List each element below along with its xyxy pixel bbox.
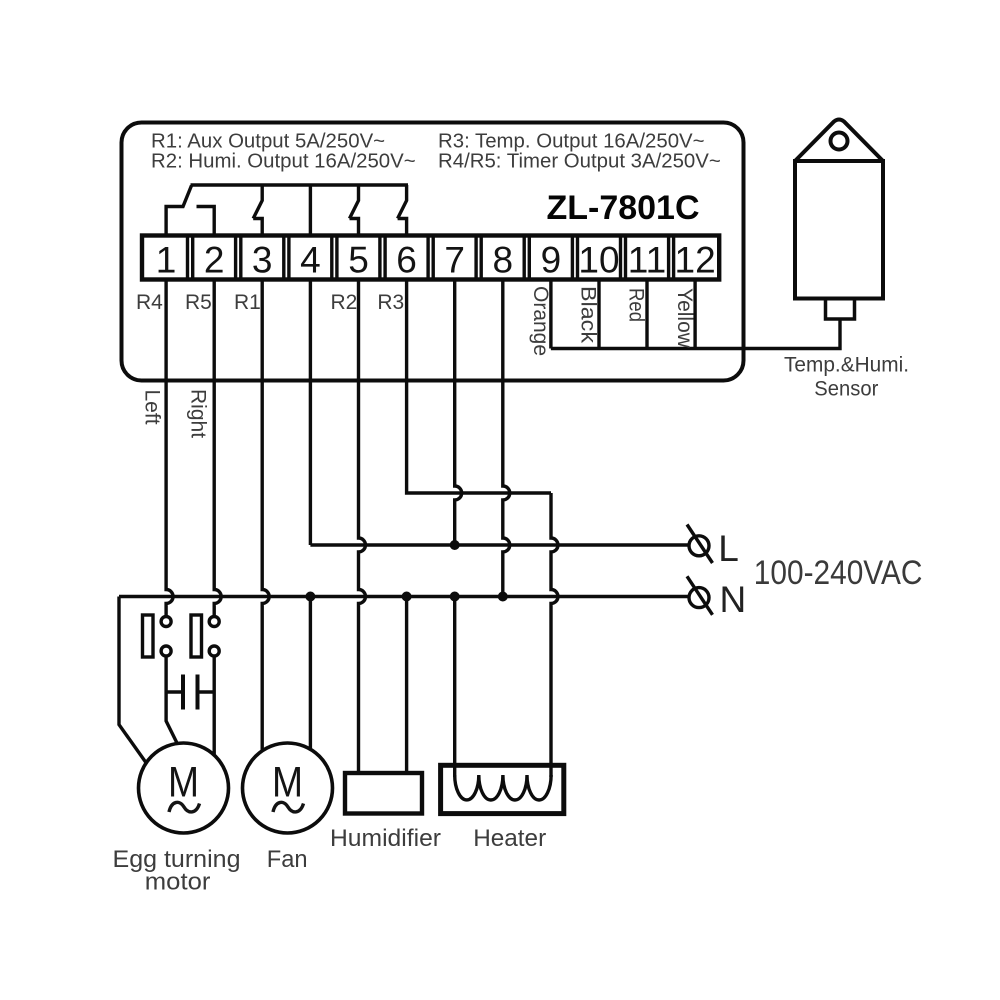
wire terminal 2 to motor switch — [214, 280, 221, 617]
svg-text:R5: R5 — [185, 291, 212, 314]
junction terminal8-N — [498, 592, 508, 602]
svg-text:100-240VAC: 100-240VAC — [754, 553, 923, 592]
relay contact above terminal 3 — [253, 185, 262, 236]
wire switch S2 to motor — [212, 656, 215, 755]
svg-text:3: 3 — [252, 240, 273, 281]
svg-text:Black: Black — [577, 286, 600, 344]
wire terminal 12 to sensor bar — [693, 280, 696, 349]
wire bar to terminal 4 — [309, 185, 312, 236]
N terminal slash — [687, 576, 713, 615]
relay contact above terminal 5 — [350, 185, 359, 236]
capacitor C1 right lead — [198, 690, 215, 693]
svg-text:R2: Humi. Output 16A/250V~: R2: Humi. Output 16A/250V~ — [151, 151, 416, 173]
svg-text:R1: Aux Output 5A/250V~: R1: Aux Output 5A/250V~ — [151, 130, 385, 152]
svg-text:Heater: Heater — [473, 825, 546, 852]
limit switch S1 (Left) actuator — [143, 615, 154, 657]
capacitor C1 left lead — [166, 690, 183, 693]
wire terminal 8 to N line — [503, 280, 510, 597]
capacitor C1 plates — [183, 675, 198, 710]
junction fan-N — [305, 592, 315, 602]
svg-text:R4/R5: Timer Output 3A/250V~: R4/R5: Timer Output 3A/250V~ — [438, 151, 721, 173]
heater box — [441, 765, 564, 813]
sensor body — [795, 161, 883, 299]
limit switch S2 (Right) contacts — [209, 617, 219, 627]
humidifier box — [345, 773, 422, 814]
svg-text:1: 1 — [156, 240, 177, 281]
svg-text:Right: Right — [187, 389, 210, 438]
N terminal circle — [689, 588, 709, 608]
limit switch S1 (Left) contacts — [161, 617, 171, 627]
wire terminal 11 to sensor bar — [645, 280, 648, 349]
wire terminal 3 to fan — [262, 280, 269, 751]
junction humidifier-N — [402, 592, 412, 602]
svg-text:12: 12 — [675, 240, 716, 281]
wire N line to heater element — [453, 597, 456, 778]
wire terminal 1 to motor switch — [166, 280, 173, 617]
svg-text:Humidifier: Humidifier — [330, 825, 441, 852]
egg turning motor M1 tilde — [169, 802, 200, 812]
wire jog to heater right lead — [551, 493, 558, 777]
svg-text:7: 7 — [444, 240, 465, 281]
svg-text:motor: motor — [145, 868, 211, 895]
fan motor M2 circle — [243, 743, 333, 833]
changeover contact K1 fixed contact (terminal 2) — [197, 207, 215, 236]
wire N line to fan — [309, 597, 312, 750]
heater element coil — [455, 775, 551, 800]
changeover contact K1 common arm (terminal 1) — [166, 186, 191, 236]
sensor hanger triangle — [795, 120, 883, 162]
wire terminal 5 to humidifier — [359, 280, 366, 774]
wire terminal 6 to heater jog — [407, 280, 551, 494]
svg-text:R3: Temp. Output 16A/250V~: R3: Temp. Output 16A/250V~ — [438, 130, 705, 152]
limit switch S2 (Right) actuator — [191, 615, 202, 657]
svg-text:M: M — [272, 759, 303, 807]
wire switch S1 to motor — [166, 656, 177, 744]
fan motor M2 tilde — [273, 802, 304, 812]
svg-text:Fan: Fan — [267, 846, 308, 873]
terminal strip outer box — [142, 236, 719, 280]
L line — [310, 543, 688, 546]
L terminal slash — [687, 525, 713, 564]
svg-text:4: 4 — [300, 240, 321, 281]
svg-text:Red: Red — [625, 288, 648, 322]
svg-text:R3: R3 — [377, 291, 404, 314]
sensor bus wire — [551, 319, 840, 349]
junction heater-N — [450, 592, 460, 602]
N line — [119, 595, 689, 598]
svg-text:6: 6 — [396, 240, 417, 281]
L terminal circle — [689, 536, 709, 556]
svg-text:L: L — [718, 528, 739, 569]
svg-text:R1: R1 — [234, 291, 261, 314]
svg-text:ZL-7801C: ZL-7801C — [546, 189, 699, 227]
wire terminal 10 to sensor bar — [597, 280, 600, 349]
svg-text:R2: R2 — [331, 291, 358, 314]
svg-text:5: 5 — [348, 240, 369, 281]
svg-text:M: M — [168, 759, 199, 807]
svg-text:Temp.&Humi.: Temp.&Humi. — [784, 353, 909, 377]
relay common bar — [191, 183, 409, 186]
sensor hanger hole — [831, 133, 848, 150]
wire N line to egg motor — [119, 597, 146, 763]
egg turning motor M1 circle — [139, 743, 229, 833]
relay contact above terminal 6 — [398, 185, 407, 236]
svg-text:Orange: Orange — [529, 286, 552, 356]
wire N line to humidifier — [405, 597, 408, 774]
wire terminal 4 to L line — [309, 280, 312, 546]
svg-text:Left: Left — [140, 390, 163, 425]
svg-text:2: 2 — [204, 240, 225, 281]
sensor cable connector — [826, 299, 855, 320]
svg-text:8: 8 — [493, 240, 514, 281]
svg-text:Sensor: Sensor — [814, 377, 878, 401]
junction terminal7-L — [450, 540, 460, 550]
wire terminal 9 to sensor bar — [549, 280, 552, 349]
wire terminal 7 to L line — [455, 280, 462, 546]
controller ZL-7801C enclosure outline — [122, 123, 744, 381]
svg-text:R4: R4 — [136, 291, 163, 314]
svg-text:9: 9 — [541, 240, 562, 281]
svg-text:10: 10 — [578, 240, 619, 281]
svg-text:Yellow: Yellow — [673, 288, 696, 349]
terminal strip cell separators — [188, 236, 193, 280]
svg-text:11: 11 — [628, 240, 666, 281]
svg-text:N: N — [720, 579, 747, 620]
